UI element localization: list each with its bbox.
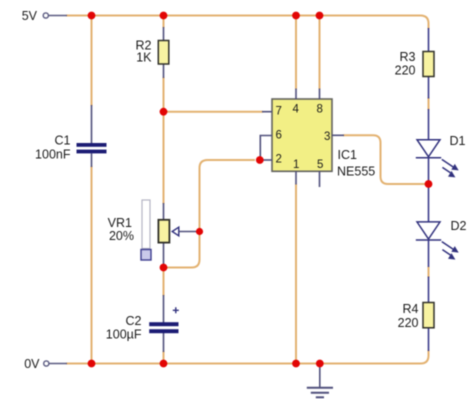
node bottom rail / C1: [88, 360, 96, 368]
LED D2: [416, 188, 467, 268]
wire R2 bottom to VR1 top: [163, 77, 165, 204]
capacitor C2: [106, 295, 179, 352]
pin 2: [261, 154, 282, 166]
node top rail / R2: [160, 12, 168, 20]
wire R3 to D1: [428, 98, 430, 111]
svg-text:VR1: VR1: [108, 216, 132, 230]
wire pin7 to R2/VR1 node: [164, 111, 264, 113]
node top rail / C1: [88, 12, 96, 20]
node top rail / pin8: [316, 12, 324, 20]
svg-text:8: 8: [317, 103, 323, 115]
node bottom rail / ground: [316, 360, 324, 368]
resistor R3: [395, 28, 434, 99]
ground: [307, 364, 333, 398]
svg-text:6: 6: [276, 130, 282, 142]
svg-text:R4: R4: [403, 302, 419, 316]
svg-text:1K: 1K: [136, 51, 152, 65]
wire C1 branch upper: [91, 16, 93, 107]
node pins 2-6: [256, 156, 264, 164]
wire C1 branch lower: [91, 166, 93, 364]
wire pins2/6 node to wiper node: [200, 160, 256, 232]
svg-text:5V: 5V: [22, 9, 38, 23]
svg-text:C1: C1: [55, 134, 71, 148]
svg-text:100nF: 100nF: [35, 148, 71, 162]
wire C2 bottom: [163, 351, 165, 364]
svg-text:IC1: IC1: [338, 148, 358, 162]
pin 6: [260, 130, 282, 158]
svg-text:220: 220: [398, 316, 419, 330]
pin 1: [293, 159, 299, 184]
pin 4: [293, 89, 300, 116]
svg-text:5: 5: [317, 159, 323, 171]
svg-text:7: 7: [276, 106, 282, 118]
wire R2 top: [163, 16, 165, 29]
wire top rail: [66, 16, 429, 30]
svg-text:D2: D2: [451, 219, 467, 233]
node R2-VR1-pin7: [160, 108, 168, 116]
wire bottom rail: [66, 350, 429, 364]
wire wiper node down to VR1 bottom node: [164, 232, 200, 268]
node D1-D2-pin3: [425, 180, 433, 188]
svg-text:220: 220: [395, 64, 416, 78]
pin 8: [317, 89, 323, 116]
node VR1 bottom / C2: [160, 264, 168, 272]
svg-text:D1: D1: [450, 134, 466, 148]
wire D2 to R4: [428, 267, 430, 278]
resistor R4: [398, 277, 434, 352]
terminal 5V: [22, 9, 67, 23]
wire pin8 to top rail: [319, 16, 321, 90]
pin 5: [317, 159, 323, 187]
svg-text:20%: 20%: [109, 229, 134, 243]
op-amp/IC U1 NE555 body: [272, 99, 375, 179]
svg-text:1: 1: [293, 159, 299, 171]
svg-text:NE555: NE555: [337, 165, 375, 179]
svg-text:C2: C2: [126, 314, 142, 328]
node bottom rail / C2: [160, 360, 168, 368]
svg-text:R3: R3: [400, 50, 416, 64]
capacitor C1: [35, 105, 106, 167]
node bottom rail / pin1: [292, 360, 300, 368]
pin 7: [262, 106, 282, 118]
pin 3: [324, 131, 344, 143]
node top rail / pin4: [292, 12, 300, 20]
LED D1: [416, 109, 466, 181]
potentiometer VR1: [108, 200, 197, 264]
svg-text:4: 4: [293, 103, 300, 115]
svg-text:2: 2: [276, 154, 282, 166]
resistor R2: [136, 27, 169, 78]
svg-text:0V: 0V: [24, 357, 40, 371]
svg-text:3: 3: [324, 131, 330, 143]
svg-text:100µF: 100µF: [106, 328, 142, 342]
wire pin4 to top rail: [295, 16, 297, 90]
wire VR1 bottom node to C2: [163, 268, 165, 297]
node wiper: [196, 228, 203, 235]
wire pin3 to LED node: [343, 135, 429, 184]
wire pin1 to bottom rail: [295, 184, 297, 364]
terminal 0V: [24, 357, 67, 371]
